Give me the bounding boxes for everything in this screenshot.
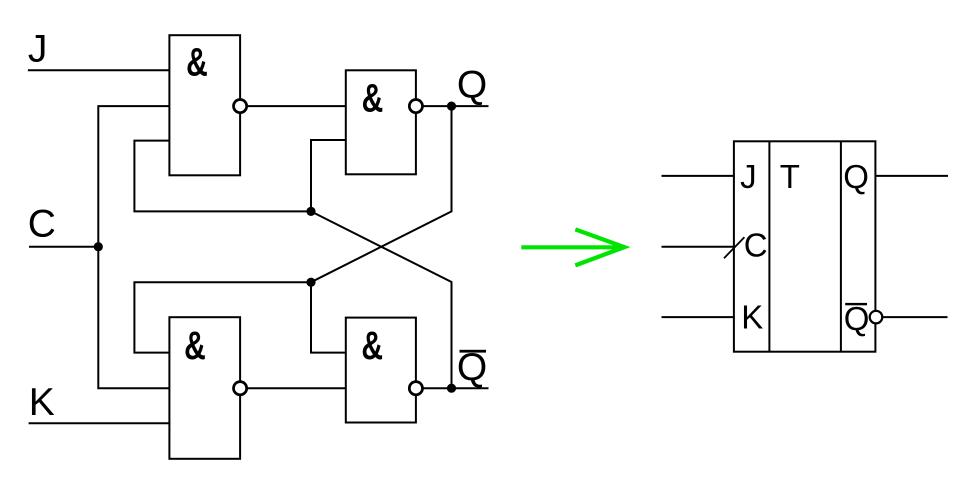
wire U1 Q output (875, 175, 948, 177)
svg-text:T: T (780, 158, 800, 195)
inverter bubble G1 (234, 100, 247, 113)
svg-text:&: & (184, 324, 206, 368)
NAND gate G3 body (169, 317, 240, 459)
wire G1 third input feedback from node QBAR (134, 141, 311, 212)
arrow implication green (521, 229, 624, 265)
wire C bus vertical to G1 and G3 (98, 106, 170, 388)
svg-text:C: C (28, 202, 56, 245)
inverter bubble G2 (409, 100, 422, 113)
svg-text:J: J (28, 27, 48, 70)
svg-text:C: C (744, 227, 768, 264)
wire diagonal node Q to Q output column (311, 106, 452, 282)
NAND gate G1 body (169, 35, 240, 175)
wire C input (29, 246, 98, 248)
inverter bubble G4 (409, 382, 422, 395)
svg-text:Q: Q (844, 300, 870, 337)
wire QBAR output (423, 387, 489, 389)
wire G1 output to G2 input (247, 105, 347, 107)
edge-trigger slash U1 C input (724, 237, 744, 258)
inverter bubble G3 (234, 382, 247, 395)
wire G3 output to G4 input (247, 387, 347, 389)
junction node Q bottom (306, 278, 315, 287)
NAND gate G4 body (346, 318, 416, 423)
inverter bubble U1 QBAR (870, 311, 883, 324)
wire U1 J input (662, 175, 734, 177)
wire K input (29, 422, 170, 424)
NAND gate G2 body (346, 70, 416, 174)
wire U1 QBAR output (882, 316, 947, 318)
overbar QBAR output (460, 350, 487, 353)
svg-text:K: K (29, 381, 55, 424)
wire U1 K input (662, 316, 734, 318)
junction node QBAR top (306, 207, 315, 216)
wire U1 C input (662, 246, 734, 248)
flip-flop U1 right divider (840, 141, 842, 351)
wire G4 first input from node Q (311, 282, 346, 352)
svg-text:Q: Q (843, 158, 869, 195)
junction Q output (447, 102, 456, 111)
overbar QBAR U1 (845, 303, 867, 305)
wire diagonal node QBAR to QBAR output column (311, 211, 452, 388)
wire G2 second input from node QBAR (311, 140, 346, 211)
flip-flop U1 left divider (768, 141, 770, 351)
wire G3 first input feedback from node Q (134, 282, 311, 352)
svg-text:Q: Q (457, 63, 487, 106)
svg-text:&: & (186, 41, 208, 85)
svg-text:Q: Q (457, 346, 487, 389)
junction C node (94, 242, 103, 251)
flip-flop U1 body (734, 141, 876, 351)
svg-text:&: & (362, 77, 384, 121)
wire J input (28, 69, 170, 71)
wire Q output (423, 105, 489, 107)
svg-text:J: J (740, 158, 757, 195)
svg-text:&: & (361, 324, 383, 368)
svg-text:K: K (741, 298, 763, 335)
junction QBAR output (447, 384, 456, 393)
